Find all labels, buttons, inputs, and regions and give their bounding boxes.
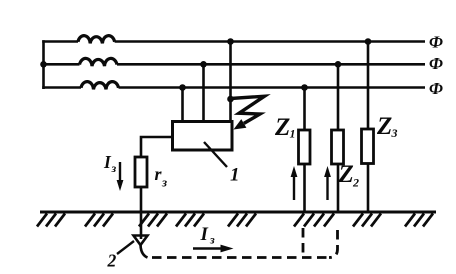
wire phase B right segment xyxy=(117,63,425,66)
wire phase B left segment xyxy=(42,63,79,66)
wire Z1 top xyxy=(303,88,306,131)
wire drop from phase C to box top xyxy=(181,88,184,123)
svg-text:Z: Z xyxy=(274,114,290,141)
impedance Z2 xyxy=(332,130,344,164)
node Z3 tap xyxy=(365,38,372,45)
wire phase A left segment xyxy=(42,40,78,43)
wire box to r3 branch xyxy=(141,137,172,157)
resistor r3 xyxy=(135,157,147,187)
wire Z3 top xyxy=(367,42,370,130)
wire Z1 bottom xyxy=(303,164,306,212)
inductor winding phase B xyxy=(80,58,118,66)
arrow I3 down (left) xyxy=(119,162,121,182)
svg-text:Ф: Ф xyxy=(429,33,443,52)
impedance Z1 xyxy=(299,130,311,164)
svg-text:з: з xyxy=(209,233,215,247)
svg-text:з: з xyxy=(111,161,117,175)
wire phase A right segment xyxy=(115,40,425,43)
wire drop from phase B to box top xyxy=(202,64,205,122)
node phase A tap xyxy=(227,38,234,45)
wire phase C left segment xyxy=(42,86,81,89)
svg-text:I: I xyxy=(200,224,209,245)
svg-text:Ф: Ф xyxy=(429,79,443,98)
inductor winding phase C xyxy=(81,82,119,90)
wire left star-point bus xyxy=(42,40,45,89)
svg-text:3: 3 xyxy=(391,126,398,140)
wire Z2 top xyxy=(337,64,340,130)
electrode 2 hook xyxy=(141,244,148,258)
svg-text:1: 1 xyxy=(290,127,296,141)
electrode 2 triangle xyxy=(134,236,148,246)
arrow I3 right (earth current) xyxy=(193,247,223,249)
node phase C tap xyxy=(179,84,186,91)
ground surface line xyxy=(40,211,436,214)
svg-text:2: 2 xyxy=(352,176,359,190)
wire phase C right segment xyxy=(119,86,426,89)
node lightning strike point xyxy=(227,96,234,103)
impedance Z3 xyxy=(362,129,374,164)
svg-text:Ф: Ф xyxy=(429,54,443,73)
svg-text:1: 1 xyxy=(230,165,240,186)
dashed earth current branch up to Z1 ground xyxy=(302,228,305,257)
leader line for label 2 xyxy=(117,241,134,254)
node phase B tap xyxy=(200,61,207,68)
node Z1 tap xyxy=(301,84,308,91)
wire r3 to ground and electrode stem xyxy=(140,187,143,239)
arrow up at Z2 xyxy=(326,174,328,200)
wire Z2 bottom xyxy=(337,164,340,212)
wire Z3 bottom xyxy=(367,164,370,213)
leader line for label 1 xyxy=(204,142,227,167)
dashed earth current branch up to Z2 ground with corner xyxy=(329,230,338,258)
node Z2 tap xyxy=(335,61,342,68)
dashed earth current path horizontal xyxy=(152,256,330,259)
wire drop from phase A to box right top xyxy=(229,42,232,123)
box 1 (substation unit) xyxy=(173,122,233,151)
svg-text:2: 2 xyxy=(107,251,117,270)
arrow up at Z1 xyxy=(293,174,295,200)
svg-text:Z: Z xyxy=(338,161,354,188)
ground hatching xyxy=(37,214,433,227)
inductor winding phase A xyxy=(78,36,115,44)
node star point xyxy=(40,61,47,68)
lightning arrow xyxy=(231,96,265,123)
svg-text:з: з xyxy=(161,175,167,190)
svg-text:Z: Z xyxy=(376,113,392,140)
